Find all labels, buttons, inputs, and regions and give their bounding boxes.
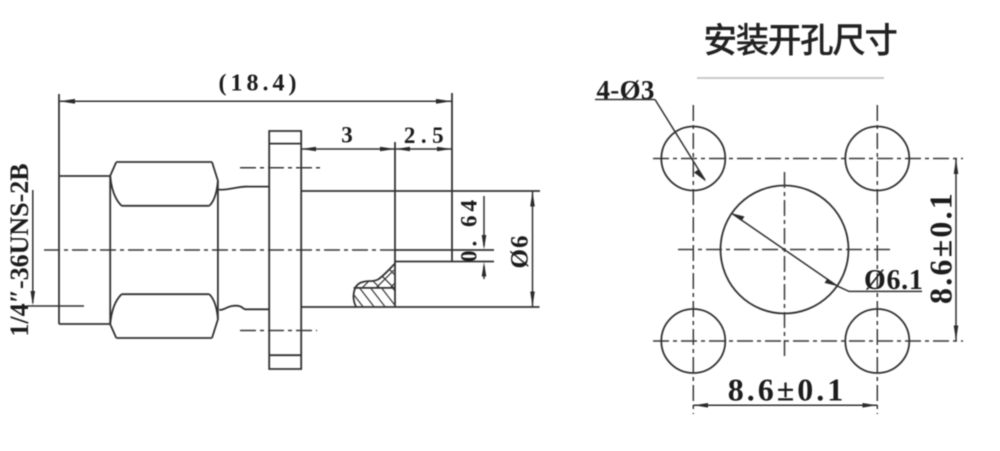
dim 2.5 right arrow [437, 147, 452, 152]
dim 0.64 dimension line upper [483, 196, 485, 246]
neck bottom contour [219, 306, 269, 310]
dim 0.64 upper arrow [482, 235, 487, 250]
thread rectangle top edge [59, 175, 110, 177]
hex nut top edge [116, 161, 212, 163]
thread label leader vertical [32, 190, 34, 303]
title 安装开孔尺寸 [706, 23, 897, 56]
axis centerline [44, 249, 396, 251]
svg-text:Ø6.1: Ø6.1 [864, 265, 924, 296]
center pin bottom line + extension [395, 261, 494, 263]
dim dia6 bottom arrow [530, 292, 535, 307]
thread label leader horizontal [27, 305, 84, 307]
dielectric face line + extension [394, 142, 396, 307]
dim 8.6 right top arrow [954, 159, 959, 174]
hex nut face boundary upper [122, 205, 210, 207]
dim 8.6 right bottom arrow [954, 326, 959, 341]
dim 3 dimension line [301, 148, 395, 150]
hex nut chamfer arcs [110, 176, 218, 324]
label 4-dia3 leader arrow [694, 170, 706, 182]
svg-text:8.6±0.1: 8.6±0.1 [728, 372, 847, 408]
svg-text:1/4″-36UNS-2B: 1/4″-36UNS-2B [5, 163, 34, 336]
dim 0.64 dimension line lower [483, 266, 485, 279]
dim 3 right arrow [380, 147, 395, 152]
neck top contour [218, 187, 269, 190]
thread rectangle left edge + dim extension line [58, 94, 60, 324]
corner hole bottom-right [845, 309, 909, 373]
dim (18.4) right arrow [436, 99, 452, 104]
center hole vertical centerline [784, 172, 786, 360]
svg-text:8.6±0.1: 8.6±0.1 [923, 191, 959, 304]
corner hole top-left [661, 127, 725, 191]
svg-text:(18.4): (18.4) [219, 71, 301, 97]
flange top inner line [269, 143, 301, 145]
grid horizontal centerline top [653, 158, 963, 160]
dim 2.5 left arrow [396, 147, 411, 152]
hex nut bottom edge [116, 337, 212, 339]
flange bolt hole centerline upper [240, 167, 321, 169]
dim (18.4) dimension line [59, 100, 452, 102]
dim 2.5 dimension line [395, 148, 452, 150]
hex nut face boundary lower [122, 293, 210, 295]
grid vertical centerline left [692, 105, 694, 414]
hex nut left edge [109, 176, 111, 324]
label 4-dia3 leader [655, 100, 705, 181]
center pin top line + extension [395, 249, 494, 251]
dim 8.6 bottom dimension line [693, 404, 877, 406]
dim 0.64 lower arrow [482, 262, 487, 277]
dim 8.6 bottom left arrow [694, 403, 708, 408]
svg-text:3: 3 [341, 123, 353, 148]
dim (18.4) left arrow [60, 99, 76, 104]
dia6.1 upper-left arrow [732, 213, 745, 221]
corner hole bottom-left [661, 309, 725, 373]
dielectric hatched section [344, 226, 408, 318]
svg-text:0. 64: 0. 64 [457, 196, 482, 262]
grid vertical centerline right [876, 105, 878, 414]
flange bolt hole centerline lower [240, 330, 317, 332]
thread rectangle bottom edge [59, 323, 110, 325]
svg-text:Ø6: Ø6 [507, 235, 534, 269]
barrel end face + right dim extension line [451, 93, 453, 262]
center hole horizontal centerline [678, 249, 890, 251]
barrel bottom edge + dia extension [301, 306, 539, 308]
dim 3 left arrow [302, 147, 316, 152]
dim dia6 dimension line [532, 191, 534, 307]
flange outline [269, 131, 301, 369]
corner hole top-right [845, 127, 909, 191]
flange bottom inner line [269, 354, 301, 356]
hex nut right edge [217, 181, 219, 320]
dim dia6 top arrow [530, 192, 535, 207]
dim 8.6 right dimension line [955, 159, 957, 342]
grid horizontal centerline bottom [653, 340, 963, 342]
barrel top edge + dia extension [301, 190, 540, 192]
thread label leader arrow [31, 291, 36, 306]
dia6.1 diagonal arrow line [732, 213, 922, 291]
svg-text:4-Ø3: 4-Ø3 [597, 75, 655, 105]
faint scan artifact line [697, 77, 884, 79]
center hole [721, 186, 849, 314]
dim 8.6 bottom right arrow [863, 403, 877, 408]
label 4-dia3 underline [595, 99, 655, 101]
hex nut corner chamfers [110, 162, 218, 338]
dia6.1 lower-right arrow [825, 278, 838, 286]
svg-text:2.5: 2.5 [404, 123, 449, 148]
